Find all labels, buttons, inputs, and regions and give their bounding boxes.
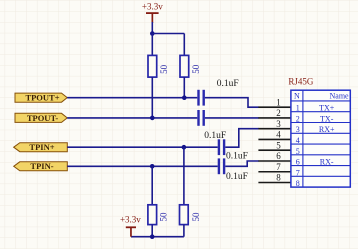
capacitor 0.1uF (TPOUT+) (197, 79, 238, 106)
svg-text:7: 7 (296, 168, 300, 177)
capacitor 0.1uF (TPIN+) (204, 131, 248, 161)
svg-text:TX+: TX+ (319, 104, 335, 113)
svg-text:N: N (294, 91, 300, 100)
resistor 50 (bottom-left) (148, 205, 169, 225)
svg-text:+3.3v: +3.3v (120, 215, 141, 225)
svg-text:0.1uF: 0.1uF (217, 79, 239, 89)
pin 1 (258, 106, 291, 108)
svg-text:0.1uF: 0.1uF (226, 172, 248, 182)
wire: TPIN+ capacitor to pin 3 jog (225, 129, 258, 148)
capacitor 0.1uF (TPIN-) (218, 158, 248, 182)
svg-text:4: 4 (276, 130, 281, 140)
wire: TPOUT+ line to capacitor (67, 97, 197, 99)
svg-text:50: 50 (191, 64, 201, 74)
node: top power junction (150, 31, 155, 36)
svg-text:RX-: RX- (320, 158, 334, 167)
svg-text:RX+: RX+ (319, 125, 335, 134)
svg-text:RJ45G: RJ45G (288, 77, 314, 87)
wire: TPIN- line to capacitor (67, 165, 217, 167)
svg-text:8: 8 (296, 179, 300, 188)
node: TPIN- / resistor junction (150, 164, 155, 169)
node: TPOUT- / resistor junction (150, 116, 155, 121)
port TPOUT- (15, 113, 67, 123)
wire: TPIN+ line to capacitor (67, 146, 217, 148)
node: TPIN+ / resistor junction (182, 145, 187, 150)
svg-text:7: 7 (276, 162, 281, 172)
svg-text:50: 50 (159, 212, 169, 222)
port TPIN+ (14, 142, 68, 152)
wire: TPOUT- line to capacitor (67, 117, 197, 119)
wire: bottom rail (131, 236, 184, 238)
svg-text:5: 5 (276, 141, 281, 151)
pin 5 (258, 149, 291, 151)
wire: TPIN- capacitor to pin 6 jog (225, 161, 258, 166)
node: TPOUT+ / resistor junction (182, 95, 187, 100)
svg-text:1: 1 (296, 104, 300, 113)
power +3.3V (top) (142, 1, 163, 23)
connector RJ45G table (291, 90, 350, 188)
svg-text:2: 2 (276, 108, 281, 118)
svg-text:6: 6 (276, 151, 281, 161)
svg-text:5: 5 (296, 147, 300, 156)
svg-text:TPIN+: TPIN+ (29, 142, 54, 152)
svg-text:50: 50 (191, 212, 201, 222)
wire: TPOUT+ capacitor to pin 1 jog (205, 98, 259, 107)
svg-text:TPIN-: TPIN- (30, 161, 53, 171)
svg-text:0.1uF: 0.1uF (204, 131, 226, 141)
svg-text:+3.3v: +3.3v (142, 1, 163, 11)
svg-text:4: 4 (296, 136, 300, 145)
wire: top-left resistor down to TPOUT- line (151, 77, 153, 118)
capacitor 0.1uF (TPOUT-) (197, 110, 205, 126)
wire: top power stem to junction (151, 22, 153, 34)
svg-text:TPOUT+: TPOUT+ (25, 93, 59, 103)
wire: right branch down to right 50 resistor (183, 34, 185, 56)
wire: junction to right branch (152, 33, 184, 35)
svg-text:TPOUT-: TPOUT- (27, 113, 59, 123)
pin 2 (258, 117, 291, 119)
pin 4 (258, 138, 291, 140)
node: bottom rail junction (150, 234, 155, 239)
wire: bottom-right resistor to bottom rail (183, 225, 185, 237)
svg-text:6: 6 (296, 158, 300, 167)
svg-text:TX-: TX- (320, 115, 334, 124)
svg-text:1: 1 (276, 97, 281, 107)
svg-text:0.1uF: 0.1uF (226, 151, 248, 161)
pin 8 (258, 182, 291, 184)
wire: TPIN+ junction down to bottom-right resistor (183, 147, 185, 205)
pin 6 (258, 160, 291, 162)
port TPOUT+ (15, 93, 67, 103)
svg-text:Name: Name (329, 91, 349, 100)
resistor 50 (bottom-right) (180, 205, 202, 225)
resistor 50 (top-right) (180, 55, 201, 77)
svg-text:2: 2 (296, 115, 300, 124)
resistor 50 (top-left) (148, 55, 169, 77)
wire: top-right resistor down to TPOUT+ line (183, 77, 185, 98)
port TPIN- (14, 161, 68, 171)
svg-text:8: 8 (276, 173, 281, 183)
pin 7 (258, 171, 291, 173)
wire: junction down to left 50 resistor (151, 34, 153, 56)
svg-text:50: 50 (159, 64, 169, 74)
pin 3 (258, 128, 291, 130)
wire: bottom-left resistor to bottom rail (151, 225, 153, 237)
svg-text:3: 3 (296, 125, 300, 134)
svg-text:3: 3 (276, 119, 281, 129)
power +3.3V (bottom) (120, 215, 141, 237)
wire: TPOUT- capacitor to pin 2 (205, 117, 259, 119)
wire: TPIN- junction down to bottom-left resistor (151, 166, 153, 205)
